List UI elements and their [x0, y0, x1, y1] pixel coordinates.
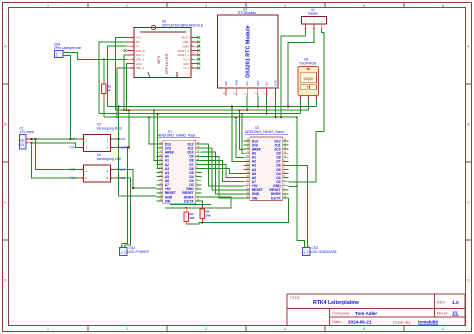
- junction V128/Vout+: [128, 147, 130, 149]
- junction GND/T4: [275, 116, 277, 118]
- svg-text:10k: 10k: [206, 213, 211, 217]
- svg-text:D1/TX: D1/TX: [271, 196, 281, 200]
- svg-text:4: 4: [284, 327, 286, 331]
- wire T3 up TSOP pin1: [300, 99, 302, 113]
- IC U6 DFPLAYER.MINI.MODULE: [124, 25, 200, 77]
- svg-text:Versorgung Rast: Versorgung Rast: [97, 126, 122, 130]
- svg-text:MP3: MP3: [156, 55, 161, 64]
- svg-text:GND: GND: [183, 62, 189, 66]
- wire trunk T1: [107, 105, 316, 107]
- junction X1-2/T1: [287, 106, 289, 108]
- IC U1 Arduino Nano master: [157, 140, 202, 204]
- svg-text:3: 3: [205, 4, 207, 8]
- wire T3 to U5 A1: [242, 114, 244, 154]
- svg-text:D1/TX: D1/TX: [184, 199, 194, 203]
- svg-text:C: C: [467, 200, 470, 204]
- svg-text:TX: TX: [136, 44, 140, 48]
- wire U1-U5 bus 3: [202, 152, 244, 194]
- junction P1-3: [35, 138, 37, 140]
- resistor R2 10k: [200, 205, 211, 223]
- svg-text:10k: 10k: [189, 216, 194, 220]
- power module U2 Versorgung Rast: [69, 135, 126, 152]
- wire X1-3 down: [289, 30, 324, 182]
- wire CN2 left up: [122, 148, 128, 248]
- junction CN2L: [127, 147, 129, 149]
- wire bottom trunk B1: [170, 204, 211, 206]
- wire P1 to U4 Vin+: [31, 143, 77, 178]
- connector X1 Relais: [302, 17, 327, 31]
- IC U3 RTC module: [218, 15, 279, 96]
- wire R3 to trunk: [103, 99, 105, 117]
- svg-text:ADKEY_1: ADKEY_1: [177, 53, 189, 57]
- IC U5 Arduino Nano slave: [244, 137, 289, 201]
- wire V118 down: [118, 139, 120, 196]
- svg-text:1: 1: [47, 327, 49, 331]
- svg-text:1.0: 1.0: [452, 300, 459, 306]
- wire T4 to U5 A2: [236, 117, 244, 157]
- svg-text:32K: 32K: [224, 81, 228, 86]
- wire U4 Vout+ right down: [116, 178, 131, 248]
- svg-text:USB-: USB-: [183, 40, 189, 44]
- svg-text:DS3201 RTC Module: DS3201 RTC Module: [246, 25, 252, 77]
- svg-text:4: 4: [284, 4, 286, 8]
- svg-text:VCC: VCC: [136, 36, 142, 40]
- junction trunkD13: [148, 116, 150, 118]
- svg-text:ADKEY_2: ADKEY_2: [177, 49, 189, 53]
- junction SDA/T1: [257, 106, 259, 108]
- junction CN4 GND: [70, 138, 72, 140]
- wire P1 to U4 Vin-: [36, 139, 78, 170]
- wire U1-U5 bus 7: [202, 169, 244, 174]
- wire T1 left down: [110, 106, 119, 139]
- svg-text:Versorgung LED: Versorgung LED: [97, 157, 122, 161]
- svg-text:TITLE:: TITLE:: [290, 296, 301, 300]
- svg-text:Drawn By:: Drawn By:: [393, 319, 411, 324]
- svg-text:+12V: +12V: [18, 143, 24, 147]
- svg-text:DFPLAYER: DFPLAYER: [164, 53, 169, 74]
- svg-text:GND: GND: [18, 139, 24, 143]
- junction pin8/T4: [116, 116, 118, 118]
- wire V128 vertical: [128, 110, 130, 147]
- svg-text:IO_2: IO_2: [183, 58, 189, 62]
- svg-text:00100: 00100: [304, 77, 314, 81]
- svg-text:Relais: Relais: [308, 12, 318, 16]
- junction R2 top: [201, 204, 203, 206]
- junction GND/T4b: [296, 116, 298, 118]
- wire RTC GND down: [275, 96, 277, 118]
- svg-text:D: D: [4, 278, 7, 282]
- svg-text:RTK4 Leiterplatine: RTK4 Leiterplatine: [313, 300, 359, 306]
- wire RTC SDA down: [257, 96, 259, 107]
- wire U2 Vout+ right: [116, 147, 129, 149]
- junction pin7/T2: [126, 109, 128, 111]
- wire trunk T2: [116, 109, 309, 111]
- power module U4 Versorgung LED: [69, 165, 126, 182]
- svg-text:USB+: USB+: [182, 44, 189, 48]
- wire bottom trunk B3: [186, 198, 288, 224]
- wire trunk to U1 A3: [156, 114, 159, 169]
- junction T4/A2: [235, 116, 237, 118]
- resistor R3 1k: [102, 80, 112, 100]
- wire trunk T3: [99, 113, 300, 115]
- junction T1/A3: [231, 106, 233, 108]
- IR receiver U8 TSOP4P38: [298, 67, 319, 100]
- svg-text:2: 2: [126, 327, 128, 331]
- junction R2 bottom: [201, 222, 203, 224]
- svg-text:SDA: SDA: [256, 80, 260, 86]
- wire P1 GND to U2: [30, 138, 78, 140]
- svg-text:IO_1: IO_1: [183, 66, 189, 70]
- svg-text:3: 3: [205, 327, 207, 331]
- svg-text:SPK_1: SPK_1: [136, 58, 145, 62]
- wire network: [30, 30, 324, 247]
- wire U5 GND stub join: [289, 185, 297, 187]
- wire U6 pin1 drop: [116, 38, 128, 111]
- junction SCL/T2: [246, 109, 248, 111]
- junction V128/T2: [128, 109, 130, 111]
- wire R3 top lead: [103, 59, 105, 80]
- wire GND net to CN3: [297, 117, 305, 247]
- connector CN4 speaker: [55, 51, 68, 59]
- svg-text:C: C: [4, 200, 7, 204]
- wire U6 pin3 drop: [107, 46, 127, 106]
- svg-text:12V Input: 12V Input: [20, 130, 35, 134]
- svg-text:TSOP4P38: TSOP4P38: [299, 61, 316, 65]
- svg-text:Date:: Date:: [332, 319, 342, 324]
- svg-text:Sheet:: Sheet:: [437, 311, 449, 316]
- svg-text:DAC_L: DAC_L: [136, 53, 145, 57]
- svg-text:5: 5: [363, 327, 365, 331]
- wire T1 up TSOP pin3: [316, 99, 318, 106]
- wire H188 to U1 +5V: [133, 187, 157, 189]
- wire T2 up TSOP pin2: [308, 99, 310, 110]
- svg-text:VIN: VIN: [165, 199, 171, 203]
- svg-text:6: 6: [442, 327, 444, 331]
- svg-text:1: 1: [47, 4, 49, 8]
- svg-text:tomski96: tomski96: [418, 320, 438, 325]
- wire trunk to U1 D13: [149, 117, 157, 144]
- wire trunk T4: [104, 116, 297, 118]
- wire U1-U5 bus 6: [202, 164, 244, 177]
- svg-text:1/1: 1/1: [452, 311, 459, 316]
- wire U6 pin7 drop: [126, 64, 128, 111]
- svg-text:RX: RX: [136, 40, 140, 44]
- svg-text:DFPLAYER.MINI.MODULE: DFPLAYER.MINI.MODULE: [162, 23, 204, 27]
- svg-text:DAC_R: DAC_R: [136, 49, 145, 53]
- svg-text:LED POWER: LED POWER: [128, 250, 150, 254]
- title block: [287, 294, 465, 326]
- svg-text:SQW: SQW: [234, 79, 238, 86]
- wire U1-U5 bus 1: [202, 144, 244, 186]
- junction Vcc/T3: [266, 113, 268, 115]
- wire X1-1 down-left: [281, 30, 306, 117]
- wire U6 pin5 drop: [124, 55, 127, 110]
- svg-text:ARDUINO_NANO_Rast: ARDUINO_NANO_Rast: [158, 133, 195, 137]
- svg-text:CN2: CN2: [129, 246, 136, 250]
- svg-text:CN3: CN3: [312, 246, 319, 250]
- svg-text:Vcc: Vcc: [265, 81, 269, 86]
- wire RTC SCL down: [246, 96, 248, 111]
- wire RTC Vcc down: [266, 96, 268, 114]
- svg-text:VIN: VIN: [252, 196, 258, 200]
- connector CN3 LED data: [303, 246, 311, 255]
- svg-text:D: D: [467, 278, 470, 282]
- svg-text:2024-06-21: 2024-06-21: [348, 319, 372, 324]
- wire bottom trunk B2: [165, 197, 231, 208]
- connector CN2 LED power: [120, 246, 128, 255]
- svg-text:Tom Adler: Tom Adler: [355, 311, 377, 316]
- wire U1-U5 bus 5: [202, 160, 244, 181]
- junction V118a: [118, 138, 120, 140]
- junction X1-1/T4: [280, 116, 282, 118]
- wire U1-U5 bus 4: [202, 156, 244, 198]
- svg-text:BUSY: BUSY: [182, 36, 189, 40]
- svg-text:LED GND/DATA: LED GND/DATA: [311, 250, 338, 254]
- junction trunkA3: [157, 113, 159, 115]
- svg-text:REV:: REV:: [437, 300, 446, 305]
- svg-text:Company:: Company:: [332, 311, 350, 316]
- wire U1-U5 bus 2: [202, 148, 244, 190]
- wire P1 +12V to U2: [30, 143, 78, 148]
- wire U6 pin8 drop: [117, 68, 127, 117]
- junction V118/T1: [118, 106, 120, 108]
- wire CN4-2 GND drop: [64, 56, 71, 139]
- junction U5 GND right: [296, 185, 298, 187]
- junction H188: [132, 187, 134, 189]
- junction trunkA1: [153, 109, 155, 111]
- junction T2/A0: [239, 109, 241, 111]
- svg-text:2Pin Lautsprecher: 2Pin Lautsprecher: [54, 46, 82, 50]
- junction pin5/T2: [123, 109, 125, 111]
- junction T3/A1: [241, 113, 243, 115]
- resistor R4 10k: [184, 208, 195, 224]
- svg-text:SPK_2: SPK_2: [136, 66, 145, 70]
- wire T2 to U5 A0: [240, 110, 244, 149]
- wire trunk to U1 A1: [154, 110, 157, 160]
- wire U5 D6 to CN3: [289, 165, 308, 247]
- wire T1 to U5 A3: [232, 106, 244, 161]
- svg-text:5: 5: [363, 4, 365, 8]
- svg-text:6: 6: [442, 4, 444, 8]
- wire U2 Vout+ ext: [128, 147, 129, 149]
- svg-text:SCL: SCL: [245, 80, 249, 86]
- wire U6 pin2 drop: [99, 42, 127, 114]
- svg-text:2: 2: [126, 4, 128, 8]
- svg-text:RTCModule: RTCModule: [238, 11, 256, 15]
- svg-text:GND: GND: [136, 62, 142, 66]
- junction R3 top net: [103, 58, 105, 60]
- wire CN4-1 to R3 net: [64, 52, 128, 59]
- svg-text:GND: GND: [274, 80, 278, 86]
- connector P1 12V input: [18, 135, 30, 150]
- wire U4 Vout- right down: [116, 170, 133, 189]
- wire U1 D1/TX down: [201, 201, 204, 205]
- wire H196 to U1 GND: [119, 195, 157, 197]
- junction R4 top: [185, 207, 187, 209]
- junction P1-2: [31, 142, 33, 144]
- junction P1-1: [31, 138, 33, 140]
- wire X1-2 down-left: [288, 30, 314, 106]
- svg-text:ARDUINO_NANO_Slave: ARDUINO_NANO_Slave: [245, 130, 284, 134]
